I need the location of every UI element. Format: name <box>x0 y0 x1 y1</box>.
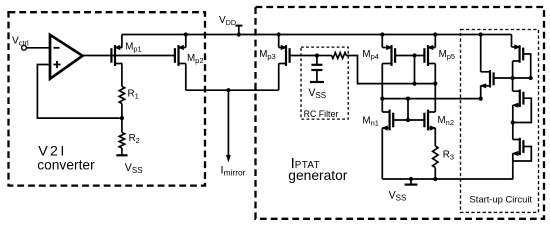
svg-text:Start-up Circuit: Start-up Circuit <box>470 194 533 205</box>
svg-text:generator: generator <box>288 168 347 183</box>
svg-text:converter: converter <box>37 157 95 172</box>
svg-text:RC Filter: RC Filter <box>304 109 339 119</box>
